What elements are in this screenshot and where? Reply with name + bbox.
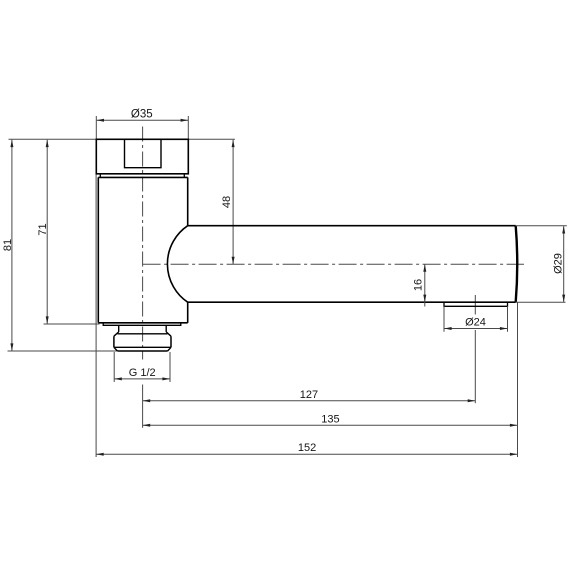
body right edge lower — [187, 302, 189, 323]
collar tick left — [99, 174, 101, 178]
dimension Ø29 line — [563, 226, 565, 302]
svg-text:Ø29: Ø29 — [553, 253, 565, 274]
thread top line — [117, 333, 167, 335]
thread side left — [113, 336, 115, 347]
cap recess — [125, 139, 162, 167]
dimension Ø35 extension lines — [95, 116, 97, 139]
svg-text:135: 135 — [321, 414, 339, 426]
extension line aerator centerline lower (127 right) — [474, 330, 476, 403]
body top edge — [98, 176, 187, 178]
thread side right — [170, 336, 172, 347]
dimension Ø24 extension lines — [443, 306, 445, 332]
dimension 135 line — [143, 424, 518, 426]
svg-text:Ø35: Ø35 — [131, 109, 153, 121]
thread lower inner line — [114, 346, 171, 348]
extension line spout-end vertical (135/152 right) — [517, 302, 519, 457]
washer under body — [103, 323, 181, 326]
dimension G 1/2 line — [114, 378, 169, 380]
spout horizontal centerline (dash-dot) — [143, 263, 524, 265]
dimension Ø35 line — [97, 119, 188, 121]
thread bottom chamfer left — [114, 347, 118, 351]
collar tick right — [183, 174, 185, 178]
aerator outline — [444, 302, 508, 306]
body bottom edge — [98, 322, 187, 324]
thread top chamfer left — [114, 332, 119, 336]
svg-text:G 1/2: G 1/2 — [129, 367, 156, 379]
svg-text:Ø24: Ø24 — [465, 317, 486, 329]
extension line spout top right (Ø29) — [516, 225, 567, 227]
dimension 48 line — [232, 140, 234, 264]
cap outline — [96, 139, 188, 174]
dimension G 1/2 extension lines — [113, 352, 115, 382]
thread neck right — [165, 325, 167, 332]
svg-text:16: 16 — [413, 279, 425, 291]
thread top chamfer right — [166, 332, 171, 336]
dimension 16 line — [424, 264, 426, 306]
svg-text:48: 48 — [221, 196, 233, 208]
dimension Ø24 line — [444, 328, 507, 330]
dimension 71 line — [46, 140, 48, 324]
svg-text:152: 152 — [298, 442, 316, 454]
extension line wall-face vertical (152 left) — [95, 175, 97, 458]
extension line aerator centerline upper — [474, 295, 476, 315]
thread bottom line — [117, 350, 167, 352]
extension line cap-top left — [9, 138, 97, 140]
thread neck left — [118, 325, 120, 332]
dimension 152 line — [96, 453, 517, 455]
dimension 81 line — [11, 140, 13, 351]
extension line cap-top right — [188, 138, 235, 140]
body vertical centerline (dash-dot) — [142, 127, 144, 360]
extension line spout bottom right (Ø29) — [516, 301, 566, 303]
body-spout transition curve — [167, 226, 187, 303]
svg-text:81: 81 — [2, 239, 14, 251]
spout end arc — [516, 226, 518, 303]
spout top edge — [188, 225, 516, 227]
body left edge — [97, 177, 99, 322]
extension line body-bottom left (71) — [44, 323, 100, 325]
extension line thread-bottom left (81) — [8, 350, 117, 352]
dimension 127 line — [143, 400, 475, 402]
thread bottom chamfer right — [168, 347, 171, 351]
svg-text:71: 71 — [37, 223, 49, 235]
spout bottom edge — [188, 301, 516, 303]
svg-text:127: 127 — [300, 389, 318, 401]
extension line body centerline lower (127/135 left) — [142, 385, 144, 428]
body right edge upper — [187, 177, 189, 225]
